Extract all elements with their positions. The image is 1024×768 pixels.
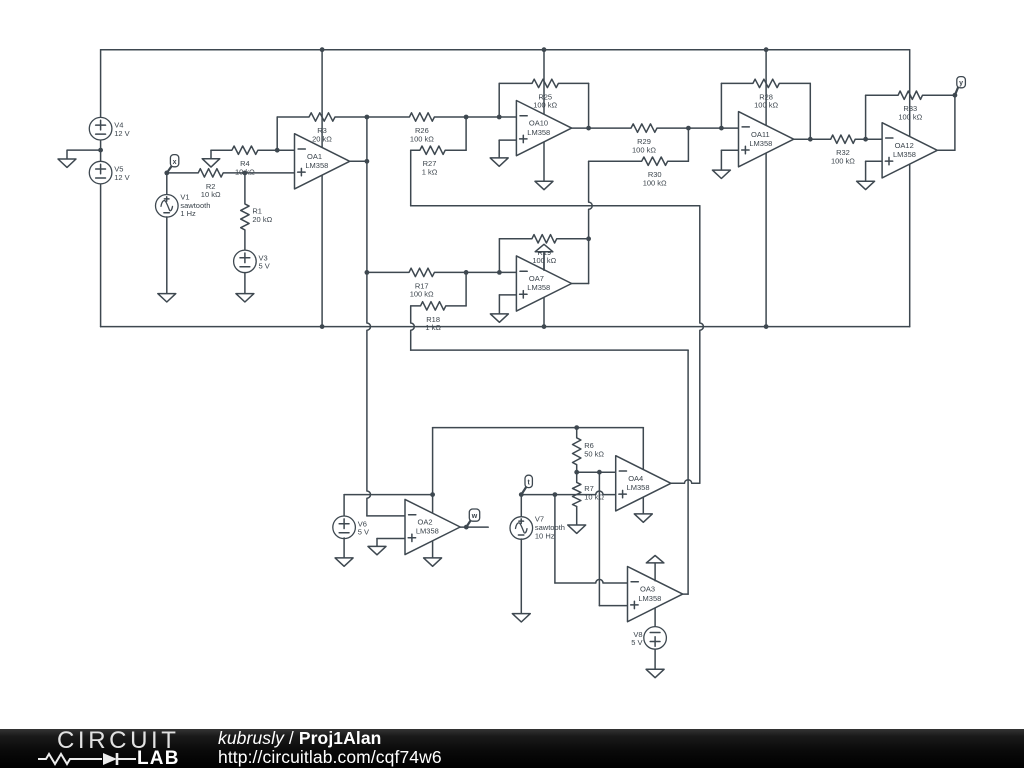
resistor R2 bbox=[167, 169, 295, 177]
resistor R4 bbox=[211, 146, 277, 154]
resistor R27 bbox=[411, 146, 466, 154]
wire OA11 plus input bbox=[721, 149, 738, 151]
wire R25 right column bbox=[588, 83, 590, 128]
op-amp OA1 bbox=[295, 134, 350, 189]
svg-text:5 V: 5 V bbox=[259, 262, 270, 271]
potentiometer R2 wiper bbox=[210, 150, 212, 159]
svg-text:10 Hz: 10 Hz bbox=[535, 531, 555, 540]
svg-text:20 kΩ: 20 kΩ bbox=[252, 215, 272, 224]
wire OA11 minus input bbox=[688, 127, 738, 129]
wire OA1 output up to R3 bbox=[366, 117, 368, 161]
voltage source V4 bbox=[89, 117, 112, 140]
ground bbox=[432, 557, 434, 559]
wire R28 right column bbox=[809, 83, 811, 139]
wire OA11 power column bbox=[765, 50, 767, 327]
wire V7 node to OA4 plus input bbox=[521, 491, 615, 495]
wire R27 right column bbox=[465, 117, 467, 150]
wire OA4 output column bbox=[700, 206, 704, 484]
wire R27 to OA4 output run bbox=[411, 205, 700, 207]
svg-text:100 kΩ: 100 kΩ bbox=[410, 290, 434, 299]
wire OA3 output bbox=[683, 593, 688, 595]
resistor R3 bbox=[277, 113, 367, 121]
svg-text:OA4: OA4 bbox=[628, 474, 643, 483]
wire ground stub left bbox=[67, 150, 101, 159]
wire OA4 minus input bbox=[577, 471, 616, 473]
svg-text:LM358: LM358 bbox=[893, 150, 916, 159]
ground bbox=[642, 513, 644, 515]
resistor R19 bbox=[499, 235, 588, 243]
ground bbox=[498, 295, 500, 314]
ground bbox=[498, 140, 500, 158]
wire OA2 Vminus stub bbox=[432, 541, 434, 558]
wire OA4 Vminus stub bbox=[642, 498, 644, 514]
wire OA12 power column bbox=[909, 50, 911, 327]
ground bbox=[343, 538, 345, 558]
wire OA2 Vplus stub bbox=[432, 495, 434, 514]
svg-text:x: x bbox=[173, 159, 177, 166]
wire R28 left column bbox=[720, 83, 722, 128]
wire R18 left down column bbox=[411, 306, 415, 350]
wire OA2 output bbox=[460, 526, 488, 528]
wire R18 to OA3 run bbox=[411, 349, 688, 351]
svg-text:OA7: OA7 bbox=[529, 274, 544, 283]
wire OA3 output column bbox=[687, 350, 689, 594]
svg-text:12 V: 12 V bbox=[114, 173, 129, 182]
resistor R18 bbox=[411, 302, 466, 310]
resistor R26 bbox=[367, 113, 517, 121]
wire OA3 plus input bbox=[599, 605, 627, 607]
wire R27 left column bbox=[410, 150, 412, 206]
svg-text:10 kΩ: 10 kΩ bbox=[584, 492, 604, 501]
svg-text:LM358: LM358 bbox=[638, 594, 661, 603]
wire OA12 output bbox=[937, 149, 955, 151]
wire R25 left column bbox=[498, 83, 500, 117]
voltage source V3 bbox=[234, 250, 257, 273]
svg-text:100 kΩ: 100 kΩ bbox=[643, 179, 667, 188]
svg-text:y: y bbox=[959, 80, 963, 87]
resistor R28 bbox=[721, 79, 810, 87]
wire V7 top lead bbox=[520, 495, 522, 517]
wire OA7 plus input bbox=[499, 294, 516, 296]
resistor R29 bbox=[589, 124, 689, 132]
resistor R17 bbox=[367, 268, 517, 276]
wire top supply rail bbox=[101, 49, 910, 51]
wire OA1 power column bbox=[321, 50, 323, 327]
svg-text:100 kΩ: 100 kΩ bbox=[831, 157, 855, 166]
svg-text:OA12: OA12 bbox=[895, 141, 914, 150]
wire OA2 plus input bbox=[376, 539, 378, 547]
wire bottom supply rail bbox=[101, 326, 910, 328]
svg-text:OA11: OA11 bbox=[751, 130, 770, 139]
wire V8 bottom lead bbox=[654, 649, 656, 669]
op-amp OA3 bbox=[628, 567, 683, 622]
wire R19 left column bbox=[498, 239, 500, 273]
wire OA10 Vplus stub bbox=[543, 50, 545, 115]
svg-text:100 kΩ: 100 kΩ bbox=[410, 134, 434, 143]
ground bbox=[543, 180, 545, 182]
wire R30 left column bbox=[589, 161, 593, 283]
ground bbox=[654, 668, 656, 670]
wire OA1 output bbox=[350, 160, 367, 162]
svg-text:100 kΩ: 100 kΩ bbox=[533, 101, 557, 110]
wire OA10 plus input bbox=[499, 139, 516, 141]
ground bbox=[376, 545, 378, 547]
resistor R30 bbox=[589, 157, 689, 165]
svg-text:100 kΩ: 100 kΩ bbox=[898, 113, 922, 122]
voltage source V1 bbox=[156, 195, 179, 218]
wire OA10 Vminus stub bbox=[543, 142, 545, 181]
wire lower positive rail bbox=[433, 427, 644, 429]
wire V6 top lead bbox=[343, 495, 345, 517]
wire OA2 Vplus column bbox=[432, 428, 434, 495]
ground bbox=[865, 161, 867, 181]
wire OA1 output down column bbox=[367, 161, 371, 516]
voltage source V7 bbox=[510, 517, 533, 540]
svg-text:10 kΩ: 10 kΩ bbox=[201, 190, 221, 199]
svg-text:OA1: OA1 bbox=[307, 152, 322, 161]
svg-text:100 kΩ: 100 kΩ bbox=[754, 101, 778, 110]
svg-text:5 V: 5 V bbox=[631, 638, 642, 647]
svg-text:5 V: 5 V bbox=[358, 528, 369, 537]
wire R3 left feedback column bbox=[276, 117, 278, 150]
wire OA3 Vminus to V8 bbox=[654, 608, 656, 627]
wire OA7 output bbox=[572, 283, 589, 285]
ground bbox=[520, 539, 522, 614]
wire OA4 minus to OA3 plus column bbox=[598, 472, 600, 605]
svg-text:50 kΩ: 50 kΩ bbox=[584, 449, 604, 458]
voltage source V8 bbox=[644, 627, 667, 650]
power arrow bbox=[543, 252, 545, 271]
svg-text:1 Hz: 1 Hz bbox=[180, 209, 196, 218]
wire R33 left column bbox=[865, 95, 867, 139]
op-amp OA10 bbox=[516, 101, 571, 156]
op-amp OA2 bbox=[405, 499, 460, 554]
svg-text:OA3: OA3 bbox=[640, 585, 655, 594]
ground bbox=[166, 217, 168, 294]
wire OA11 output bbox=[794, 138, 811, 140]
node w bbox=[466, 520, 471, 527]
wire left rail V4 V5 column bbox=[100, 50, 102, 327]
op-amp OA7 bbox=[516, 256, 571, 311]
wire OA4 output bbox=[671, 480, 700, 484]
svg-text:OA2: OA2 bbox=[418, 518, 433, 527]
svg-text:LM358: LM358 bbox=[749, 139, 772, 148]
CircuitLab logo bbox=[37, 729, 182, 768]
svg-text:LM358: LM358 bbox=[527, 128, 550, 137]
svg-text:1 kΩ: 1 kΩ bbox=[422, 168, 438, 177]
wire OA7 Vminus stub bbox=[543, 297, 545, 326]
op-amp OA4 bbox=[616, 456, 671, 511]
resistor R33 bbox=[866, 91, 955, 99]
wire OA1 minus input bbox=[277, 149, 294, 151]
svg-text:20 kΩ: 20 kΩ bbox=[312, 134, 332, 143]
svg-text:LM358: LM358 bbox=[305, 161, 328, 170]
ground bbox=[66, 158, 68, 160]
wire OA3 minus input bbox=[555, 579, 628, 583]
svg-text:LM358: LM358 bbox=[527, 283, 550, 292]
resistor R1 bbox=[241, 173, 249, 251]
svg-text:OA10: OA10 bbox=[529, 119, 548, 128]
wire OA4 Vplus stub bbox=[642, 428, 644, 469]
resistor R6 bbox=[573, 428, 581, 473]
op-amp OA11 bbox=[739, 112, 794, 167]
op-amp OA12 bbox=[882, 123, 937, 178]
resistor R25 bbox=[499, 79, 588, 87]
svg-text:LM358: LM358 bbox=[627, 483, 650, 492]
wire OA12 plus input bbox=[866, 160, 883, 162]
node y bbox=[955, 87, 959, 96]
wire OA7 Vplus stub bbox=[543, 252, 545, 271]
svg-text:1 kΩ: 1 kΩ bbox=[425, 323, 441, 332]
svg-text:w: w bbox=[471, 513, 478, 520]
wire OA12 minus input bbox=[866, 138, 883, 140]
voltage source V5 bbox=[89, 161, 112, 184]
wire OA10 output bbox=[572, 127, 589, 129]
resistor R32 bbox=[810, 135, 865, 143]
svg-text:LM358: LM358 bbox=[416, 527, 439, 536]
wire V7 node to OA3 column bbox=[554, 495, 556, 583]
wire R30 right column bbox=[687, 128, 689, 161]
power arrow bbox=[654, 563, 656, 581]
wire R33 right column bbox=[954, 95, 956, 150]
resistor R7 bbox=[573, 472, 581, 506]
wire V6 to OA2 Vplus bbox=[344, 494, 433, 496]
node x bbox=[167, 166, 172, 173]
ground bbox=[244, 273, 246, 294]
svg-text:12 V: 12 V bbox=[114, 129, 129, 138]
wire V1 top column bbox=[166, 173, 168, 217]
ground bbox=[720, 150, 722, 170]
svg-text:100 kΩ: 100 kΩ bbox=[632, 145, 656, 154]
ground bbox=[576, 507, 578, 526]
wire OA2 minus input bbox=[367, 515, 405, 517]
junction dots bbox=[320, 47, 325, 52]
voltage source V6 bbox=[333, 516, 356, 539]
wire R18 right column bbox=[465, 272, 467, 306]
node t bbox=[521, 486, 526, 494]
